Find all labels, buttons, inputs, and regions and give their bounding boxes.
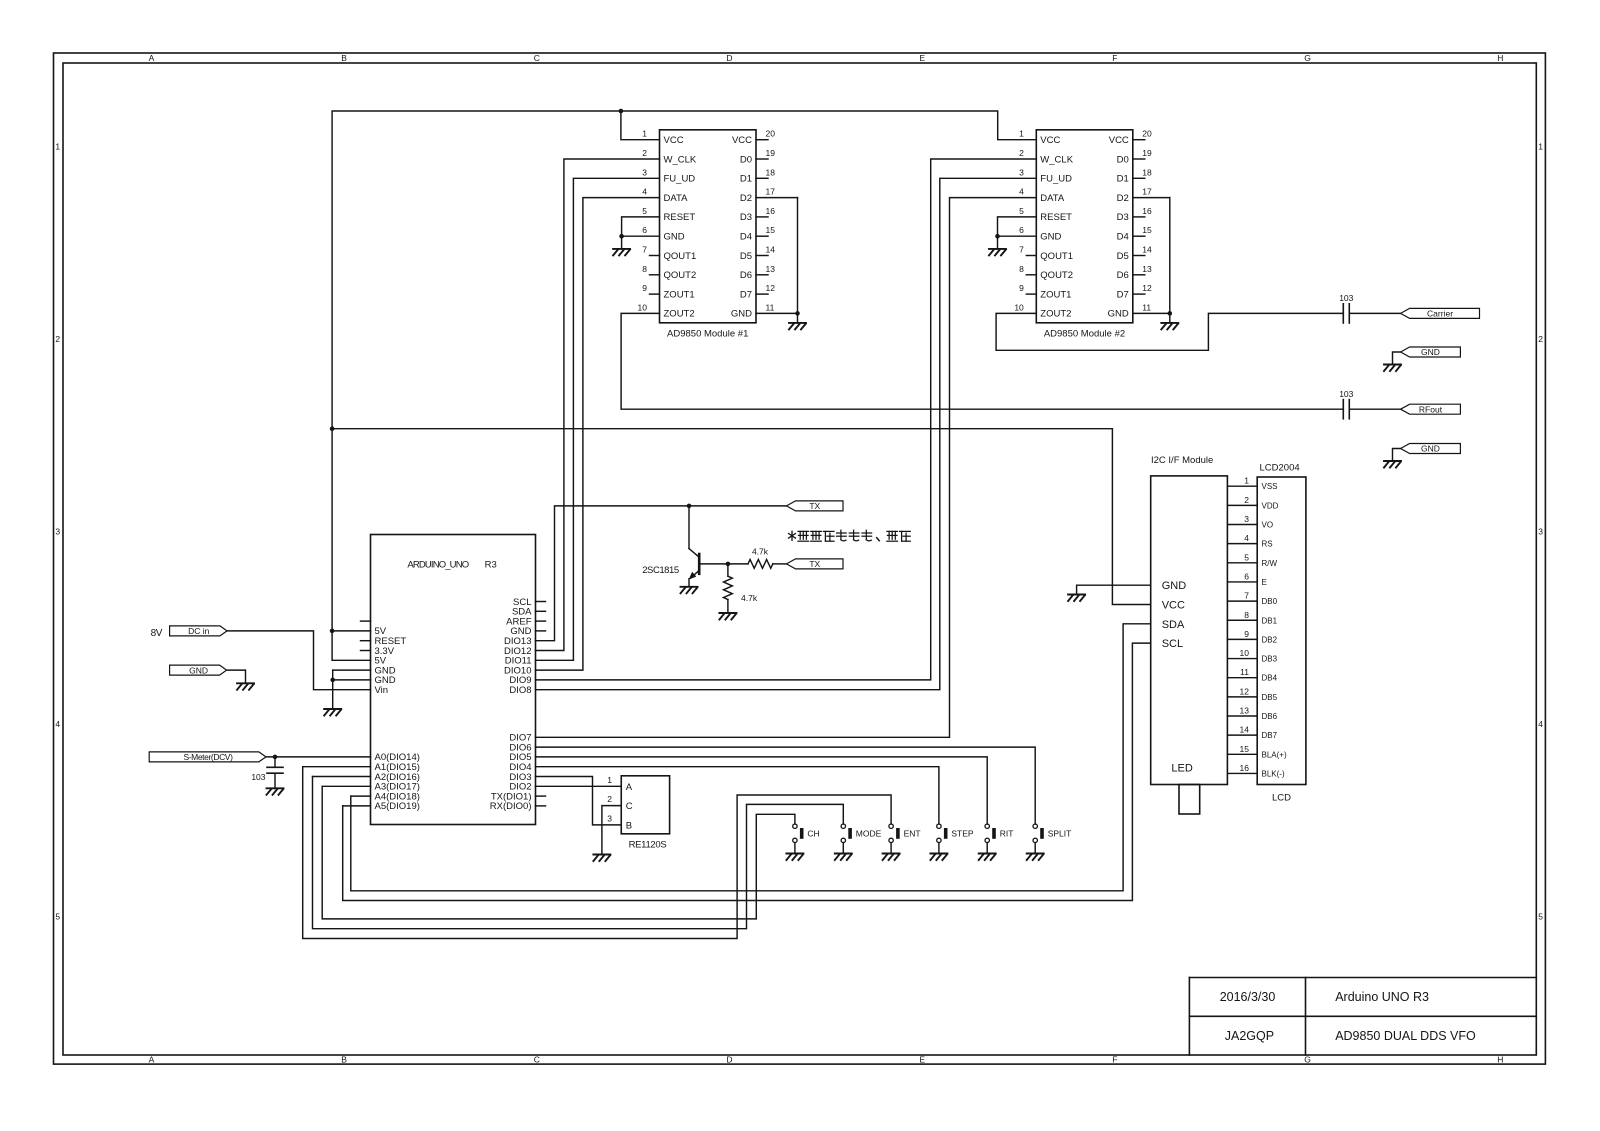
svg-text:D1: D1 [740,174,752,185]
svg-text:G: G [1304,1055,1311,1065]
svg-text:VCC: VCC [1109,135,1129,146]
svg-text:QOUT1: QOUT1 [664,251,697,262]
svg-text:F: F [1112,53,1117,63]
svg-text:2: 2 [1244,495,1249,505]
svg-text:15: 15 [1240,744,1250,754]
svg-text:4: 4 [1019,187,1024,197]
svg-text:AD9850 Module #2: AD9850 Module #2 [1044,328,1125,339]
svg-text:13: 13 [766,264,776,274]
svg-text:D2: D2 [740,193,752,204]
svg-text:E: E [919,53,925,63]
svg-text:19: 19 [1142,148,1152,158]
svg-text:I2C I/F Module: I2C I/F Module [1151,455,1213,466]
svg-text:4.7k: 4.7k [752,546,769,556]
svg-text:14: 14 [1240,725,1250,735]
svg-text:VO: VO [1262,521,1274,530]
svg-text:8V: 8V [151,628,163,639]
svg-text:W_CLK: W_CLK [664,154,697,165]
svg-text:8: 8 [1019,264,1024,274]
svg-text:D6: D6 [740,270,752,281]
svg-text:2: 2 [1019,148,1024,158]
svg-text:DC in: DC in [188,626,210,636]
svg-text:ENT: ENT [904,829,921,839]
svg-text:SDA: SDA [1162,619,1185,631]
svg-text:D: D [726,53,732,63]
svg-text:VCC: VCC [732,135,752,146]
svg-text:D7: D7 [1117,289,1129,300]
svg-text:1: 1 [607,775,612,785]
svg-text:DB3: DB3 [1262,655,1278,664]
svg-text:GND: GND [1421,347,1440,357]
svg-text:7: 7 [642,245,647,255]
svg-text:LCD: LCD [1272,793,1291,804]
svg-text:VSS: VSS [1262,482,1278,491]
svg-text:E: E [919,1055,925,1065]
svg-text:1: 1 [1019,129,1024,139]
svg-text:1: 1 [55,142,60,152]
svg-text:19: 19 [766,148,776,158]
svg-text:17: 17 [1142,187,1152,197]
svg-text:D0: D0 [740,154,752,165]
svg-text:DB2: DB2 [1262,635,1278,644]
svg-text:3: 3 [642,167,647,177]
svg-text:12: 12 [766,283,776,293]
svg-text:Carrier: Carrier [1427,309,1453,319]
svg-text:DB1: DB1 [1262,616,1278,625]
svg-text:6: 6 [1244,571,1249,581]
svg-text:3: 3 [1244,514,1249,524]
svg-text:ZOUT1: ZOUT1 [1040,289,1071,300]
svg-text:FU_UD: FU_UD [664,174,696,185]
svg-text:2016/3/30: 2016/3/30 [1220,990,1276,1004]
svg-text:14: 14 [766,245,776,255]
svg-text:LCD2004: LCD2004 [1260,462,1300,473]
svg-text:A: A [626,782,633,793]
svg-text:E: E [1262,578,1267,587]
svg-text:DB5: DB5 [1262,693,1278,702]
svg-text:11: 11 [766,302,775,312]
svg-text:D0: D0 [1117,154,1129,165]
svg-text:15: 15 [766,225,776,235]
svg-text:16: 16 [1240,763,1250,773]
svg-text:D1: D1 [1117,174,1129,185]
svg-text:MODE: MODE [856,829,882,839]
svg-text:A: A [149,1055,155,1065]
svg-text:R/W: R/W [1262,559,1278,568]
svg-text:JA2GQP: JA2GQP [1225,1029,1274,1043]
svg-text:8: 8 [642,264,647,274]
svg-text:9: 9 [1019,283,1024,293]
svg-text:3: 3 [55,527,60,537]
svg-text:SCL: SCL [1162,638,1183,650]
svg-text:D6: D6 [1117,270,1129,281]
svg-text:D2: D2 [1117,193,1129,204]
svg-text:S-Meter(DCV): S-Meter(DCV) [183,752,233,762]
svg-text:TX: TX [809,501,820,511]
svg-text:4.7k: 4.7k [741,593,758,603]
svg-text:B: B [626,820,632,831]
svg-text:D3: D3 [1117,212,1129,223]
svg-text:ZOUT2: ZOUT2 [664,309,695,320]
svg-text:RX(DIO0): RX(DIO0) [490,801,532,812]
svg-text:B: B [341,53,347,63]
svg-text:GND: GND [1162,580,1187,592]
svg-text:D: D [726,1055,732,1065]
svg-text:AD9850 DUAL DDS VFO: AD9850 DUAL DDS VFO [1335,1029,1476,1043]
svg-text:BLK(-): BLK(-) [1262,769,1285,778]
svg-text:103: 103 [1339,293,1353,303]
svg-text:10: 10 [638,302,648,312]
svg-text:C: C [534,1055,540,1065]
svg-text:GND: GND [731,309,752,320]
svg-text:2: 2 [607,794,612,804]
svg-text:2SC1815: 2SC1815 [642,565,679,576]
svg-text:10: 10 [1240,648,1250,658]
svg-text:D4: D4 [740,232,752,243]
svg-text:103: 103 [1339,389,1353,399]
svg-text:GND: GND [1421,444,1440,454]
svg-text:9: 9 [642,283,647,293]
svg-text:W_CLK: W_CLK [1040,154,1073,165]
svg-text:4: 4 [1538,719,1543,729]
svg-text:ZOUT2: ZOUT2 [1040,309,1071,320]
svg-text:13: 13 [1240,706,1250,716]
svg-text:BLA(+): BLA(+) [1262,750,1287,759]
svg-text:3: 3 [1019,167,1024,177]
svg-text:16: 16 [1142,206,1152,216]
svg-text:C: C [534,53,540,63]
svg-text:5: 5 [1244,552,1249,562]
svg-text:18: 18 [1142,167,1152,177]
svg-text:VCC: VCC [664,135,684,146]
svg-text:VCC: VCC [1162,600,1185,612]
svg-text:5: 5 [1538,912,1543,922]
svg-text:2: 2 [55,334,60,344]
svg-text:D7: D7 [740,289,752,300]
svg-text:RS: RS [1262,540,1273,549]
svg-text:8: 8 [1244,610,1249,620]
svg-text:2: 2 [642,148,647,158]
svg-text:17: 17 [766,187,776,197]
svg-text:7: 7 [1019,245,1024,255]
svg-text:RESET: RESET [664,212,696,223]
svg-text:STEP: STEP [951,829,974,839]
svg-text:DB0: DB0 [1262,597,1278,606]
svg-text:A5(DIO19): A5(DIO19) [375,801,420,812]
svg-text:DATA: DATA [1040,193,1065,204]
svg-text:C: C [626,801,633,812]
svg-text:DATA: DATA [664,193,689,204]
svg-text:FU_UD: FU_UD [1040,174,1072,185]
svg-text:RIT: RIT [1000,829,1014,839]
svg-text:RFout: RFout [1419,404,1443,414]
svg-text:13: 13 [1142,264,1152,274]
svg-text:D4: D4 [1117,232,1129,243]
svg-text:D5: D5 [740,251,752,262]
svg-text:LED: LED [1171,763,1192,775]
svg-text:4: 4 [55,719,60,729]
svg-text:5: 5 [1019,206,1024,216]
svg-text:5: 5 [642,206,647,216]
svg-text:QOUT2: QOUT2 [664,270,697,281]
svg-text:18: 18 [766,167,776,177]
svg-text:H: H [1497,1055,1503,1065]
svg-text:GND: GND [664,232,685,243]
svg-text:QOUT2: QOUT2 [1040,270,1073,281]
svg-text:DB7: DB7 [1262,731,1278,740]
svg-text:6: 6 [642,225,647,235]
svg-text:3: 3 [1538,527,1543,537]
svg-text:TX: TX [809,559,820,569]
svg-text:1: 1 [1244,476,1249,486]
svg-text:QOUT1: QOUT1 [1040,251,1073,262]
svg-text:H: H [1497,53,1503,63]
svg-text:1: 1 [1538,142,1543,152]
svg-text:VDD: VDD [1262,501,1279,510]
svg-text:15: 15 [1142,225,1152,235]
svg-text:ZOUT1: ZOUT1 [664,289,695,300]
svg-text:Arduino UNO R3: Arduino UNO R3 [1335,990,1429,1004]
svg-text:103: 103 [251,772,265,782]
svg-text:D3: D3 [740,212,752,223]
svg-text:4: 4 [1244,533,1249,543]
svg-text:4: 4 [642,187,647,197]
svg-text:D5: D5 [1117,251,1129,262]
svg-text:F: F [1112,1055,1117,1065]
svg-text:10: 10 [1014,302,1024,312]
svg-text:1: 1 [642,129,647,139]
svg-text:20: 20 [766,129,776,139]
svg-text:A: A [149,53,155,63]
svg-text:11: 11 [1142,302,1151,312]
svg-text:7: 7 [1244,591,1249,601]
svg-text:12: 12 [1142,283,1152,293]
svg-text:CH: CH [807,829,819,839]
svg-text:GND: GND [1108,309,1129,320]
svg-text:GND: GND [189,665,208,675]
svg-text:G: G [1304,53,1311,63]
svg-text:14: 14 [1142,245,1152,255]
svg-text:20: 20 [1142,129,1152,139]
svg-text:SPLIT: SPLIT [1048,829,1072,839]
svg-text:AD9850 Module #1: AD9850 Module #1 [667,328,748,339]
svg-text:DB4: DB4 [1262,674,1278,683]
svg-text:DB6: DB6 [1262,712,1278,721]
svg-text:R3: R3 [485,560,497,571]
svg-text:3: 3 [607,813,612,823]
svg-text:RESET: RESET [1040,212,1072,223]
svg-text:ARDUINO_UNO: ARDUINO_UNO [407,560,468,571]
svg-text:9: 9 [1244,629,1249,639]
svg-text:2: 2 [1538,334,1543,344]
svg-text:VCC: VCC [1040,135,1060,146]
svg-text:B: B [341,1055,347,1065]
svg-text:Vin: Vin [375,685,389,696]
svg-text:DIO8: DIO8 [509,685,531,696]
svg-text:5: 5 [55,912,60,922]
svg-text:16: 16 [766,206,776,216]
svg-text:GND: GND [1040,232,1061,243]
svg-text:11: 11 [1240,667,1249,677]
svg-text:12: 12 [1240,686,1250,696]
svg-text:6: 6 [1019,225,1024,235]
svg-text:RE1120S: RE1120S [629,839,667,850]
